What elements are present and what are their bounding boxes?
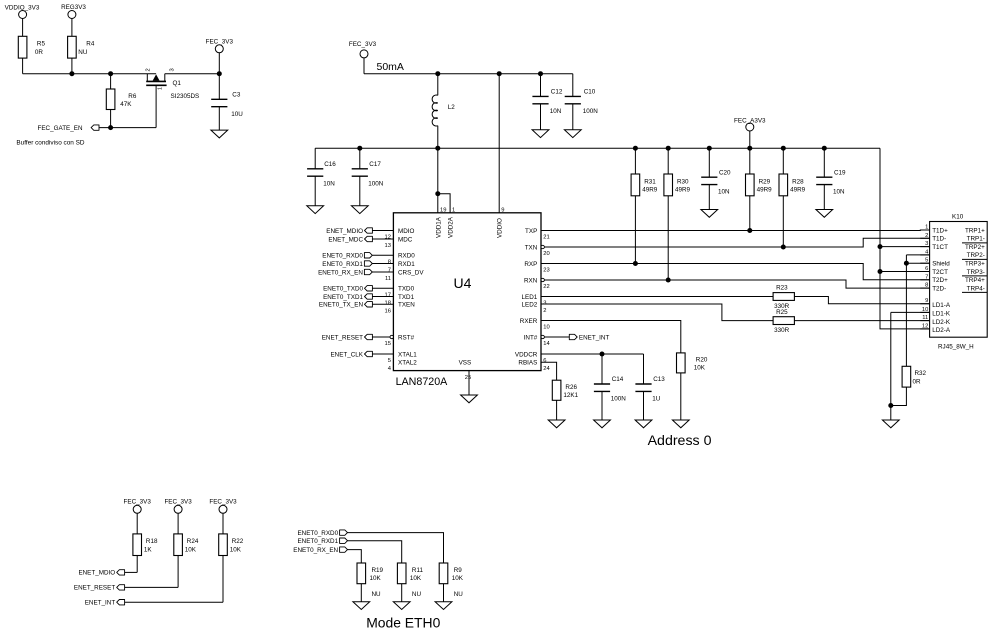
- svg-text:R5: R5: [37, 41, 46, 48]
- pin 11 LD2-K: [920, 315, 951, 326]
- svg-text:LED1: LED1: [522, 294, 538, 301]
- ground C20: [701, 210, 718, 218]
- svg-text:15: 15: [385, 341, 391, 347]
- pin 12 LD2-A: [920, 323, 951, 334]
- svg-text:FEC_3V3: FEC_3V3: [209, 499, 237, 506]
- ground C13: [635, 420, 652, 428]
- wire rail to C16: [314, 148, 316, 169]
- svg-text:13: 13: [385, 243, 391, 249]
- wire R24 to ENET_RESET: [177, 556, 179, 588]
- wire R26 to ground: [556, 400, 558, 420]
- svg-text:9: 9: [501, 208, 504, 214]
- ground C10: [564, 130, 581, 138]
- junction R4/rail: [69, 71, 74, 76]
- resistor R18: [133, 534, 158, 556]
- svg-text:VDDIO: VDDIO: [497, 218, 504, 238]
- resistor R6: [106, 89, 137, 110]
- svg-text:ENET0_RXD1: ENET0_RXD1: [322, 261, 363, 268]
- svg-text:20: 20: [543, 251, 549, 257]
- capacitor C12: [532, 89, 562, 115]
- svg-text:ENET0_RX_EN: ENET0_RX_EN: [318, 269, 363, 276]
- svg-text:TRP4-: TRP4-: [967, 285, 985, 292]
- ground VSS: [461, 395, 478, 403]
- wire R28 to TXN: [782, 196, 784, 247]
- wire Shield to R32: [905, 263, 907, 366]
- svg-text:LD2-A: LD2-A: [932, 327, 951, 334]
- svg-text:2: 2: [925, 233, 928, 239]
- wire R25 to LD2-K: [794, 320, 929, 322]
- net flag ENET_MDC: [328, 236, 372, 243]
- svg-text:T2D-: T2D-: [932, 285, 946, 292]
- svg-text:11: 11: [922, 315, 928, 321]
- resistor R23: [773, 285, 794, 310]
- svg-text:5: 5: [388, 358, 391, 364]
- wire R32 to ground node: [891, 387, 907, 405]
- svg-text:25: 25: [465, 375, 471, 381]
- net flag ENET_RESET: [74, 585, 125, 592]
- svg-text:Mode ETH0: Mode ETH0: [366, 615, 440, 631]
- svg-text:TXN: TXN: [525, 244, 538, 251]
- wire VDDCR to C13: [541, 353, 644, 355]
- svg-text:ENET0_TX_EN: ENET0_TX_EN: [319, 302, 364, 309]
- svg-text:T1D-: T1D-: [932, 236, 946, 243]
- svg-text:C3: C3: [232, 92, 241, 99]
- wire C13 to ground: [643, 391, 645, 420]
- junction VDDIO/top rail: [497, 71, 502, 76]
- ground R9: [435, 602, 452, 610]
- svg-text:8: 8: [925, 283, 928, 289]
- junction FEC_A3V3/rail: [747, 146, 752, 151]
- wire rail to R31: [634, 148, 636, 174]
- pin bubble TXN: [541, 245, 544, 248]
- svg-text:ENET_INT: ENET_INT: [579, 334, 610, 341]
- wire C3 to ground: [218, 107, 220, 130]
- svg-text:TRP3+: TRP3+: [965, 261, 985, 268]
- wire ENET_MDC to U4: [372, 238, 393, 240]
- svg-text:1K: 1K: [144, 547, 153, 554]
- svg-text:C16: C16: [324, 161, 336, 168]
- net flag ENET0_TX_EN: [319, 302, 372, 309]
- svg-text:7: 7: [925, 274, 928, 280]
- svg-text:10K: 10K: [370, 575, 382, 582]
- svg-text:0R: 0R: [35, 49, 44, 56]
- wire ENET0_TXD1 to U4: [372, 296, 393, 298]
- junction VDD1A/VDD2A: [435, 191, 440, 196]
- svg-text:Buffer condiviso con SD: Buffer condiviso con SD: [16, 140, 84, 147]
- pin bubble RST#: [390, 335, 393, 338]
- svg-text:ENET0_RXD1: ENET0_RXD1: [297, 538, 338, 545]
- svg-text:0R: 0R: [913, 379, 922, 386]
- wire R11 to ground: [401, 584, 403, 602]
- ground R26: [548, 420, 565, 428]
- op-amp U4 IC body LAN8720A: [393, 213, 541, 388]
- svg-text:MDIO: MDIO: [398, 228, 415, 235]
- svg-text:LD1-A: LD1-A: [932, 302, 951, 309]
- svg-text:Address 0: Address 0: [648, 433, 712, 449]
- svg-text:1: 1: [925, 225, 928, 231]
- svg-text:100N: 100N: [368, 180, 384, 187]
- junction R29/TXP: [747, 228, 752, 233]
- pin 5 Shield: [920, 258, 950, 268]
- svg-text:10K: 10K: [410, 575, 422, 582]
- svg-text:VDD2A: VDD2A: [448, 216, 455, 238]
- pin 8 T2D-: [920, 283, 946, 293]
- svg-text:10N: 10N: [833, 189, 845, 196]
- svg-text:10U: 10U: [231, 111, 243, 118]
- junction R6/gate wire: [108, 125, 113, 130]
- svg-text:8: 8: [388, 259, 391, 265]
- resistor R28: [779, 174, 806, 196]
- svg-text:TRP4+: TRP4+: [965, 277, 985, 284]
- wire to ground: [890, 406, 892, 421]
- svg-text:TRP1-: TRP1-: [967, 236, 985, 243]
- pin 9 LD1-A: [920, 298, 951, 309]
- svg-text:TXD0: TXD0: [398, 286, 415, 293]
- svg-text:VDDCR: VDDCR: [515, 351, 538, 358]
- ground R19: [353, 602, 370, 610]
- junction Shield: [904, 261, 909, 266]
- svg-text:RXD0: RXD0: [398, 253, 415, 260]
- svg-text:49R9: 49R9: [675, 187, 691, 194]
- svg-text:FEC_A3V3: FEC_A3V3: [734, 117, 766, 124]
- ground C14: [594, 420, 611, 428]
- svg-text:C17: C17: [369, 161, 381, 168]
- wire ENET0_RXD0 to U4: [372, 254, 393, 256]
- power VDDIO_3V3: [5, 4, 40, 36]
- wire R22 to ENET_INT: [222, 556, 224, 603]
- wire INT# to flag: [544, 336, 569, 338]
- capacitor C3: [211, 92, 243, 118]
- svg-text:LD2-K: LD2-K: [932, 319, 951, 326]
- svg-text:49R9: 49R9: [790, 187, 806, 194]
- svg-text:FEC_3V3: FEC_3V3: [124, 499, 152, 506]
- junction C12/top rail: [538, 71, 543, 76]
- svg-text:1: 1: [157, 87, 163, 90]
- wire VDDIO feed: [498, 74, 500, 213]
- net flag ENET0_RXD0: [297, 530, 347, 537]
- wire LD1-K stub: [891, 311, 930, 313]
- pin bubble INT#: [541, 335, 544, 338]
- net flag ENET0_TXD0: [323, 286, 372, 293]
- svg-text:10K: 10K: [230, 547, 242, 554]
- wire R31 to RXP: [634, 196, 636, 264]
- wire ENET0_RXD1 to U4: [372, 263, 393, 265]
- junction C17/rail: [357, 146, 362, 151]
- svg-text:R20: R20: [696, 356, 708, 363]
- svg-text:TXEN: TXEN: [398, 302, 415, 309]
- power FEC_3V3 (center): [349, 41, 377, 74]
- wire ENET_MDIO net: [125, 571, 138, 573]
- svg-text:ENET0_TXD1: ENET0_TXD1: [323, 294, 363, 301]
- svg-text:14: 14: [543, 341, 550, 347]
- svg-text:10N: 10N: [550, 108, 562, 115]
- wire ENET0_TX_EN to U4: [372, 303, 393, 305]
- junction C20/rail: [707, 146, 712, 151]
- capacitor C14: [594, 376, 626, 402]
- junction R30/RXN: [666, 278, 671, 283]
- power FEC_3V3 (R18): [124, 499, 152, 534]
- wire LD1-K to ground node: [890, 312, 892, 405]
- svg-text:5: 5: [925, 258, 928, 264]
- svg-text:RBIAS: RBIAS: [518, 360, 537, 367]
- wire R6 to gate net: [110, 110, 112, 128]
- svg-text:RJ45_8W_H: RJ45_8W_H: [938, 344, 974, 351]
- net flag ENET0_RX_EN: [318, 269, 372, 276]
- svg-text:ENET_RESET: ENET_RESET: [74, 585, 115, 592]
- wire C16 to ground: [314, 176, 316, 206]
- wire R5 to rail: [22, 58, 24, 74]
- svg-text:49R9: 49R9: [757, 187, 773, 194]
- svg-text:VSS: VSS: [459, 359, 472, 366]
- svg-text:21: 21: [543, 235, 549, 241]
- svg-text:NU: NU: [454, 591, 464, 598]
- pin 4: [920, 249, 929, 255]
- net flag FEC_GATE_EN: [37, 125, 99, 132]
- resistor R20: [677, 353, 708, 373]
- svg-text:FEC_3V3: FEC_3V3: [349, 41, 377, 48]
- svg-text:T2D+: T2D+: [932, 277, 948, 284]
- wire C20 to ground: [708, 185, 710, 210]
- wire rail to R6: [110, 74, 112, 89]
- pin bubble RXN: [541, 278, 544, 281]
- wire top rail to C12: [540, 74, 542, 97]
- wire rail to C19: [823, 148, 825, 177]
- svg-text:TXD1: TXD1: [398, 294, 415, 301]
- svg-text:12K1: 12K1: [563, 392, 578, 399]
- wire Q1 drain to FEC_3V3 node: [165, 73, 220, 75]
- wire ENET_RESET net: [125, 586, 179, 588]
- wire T2CT to FEC_A3V3 line: [880, 271, 930, 273]
- svg-text:FEC_3V3: FEC_3V3: [164, 499, 192, 506]
- wire top rail to C10: [572, 74, 574, 97]
- wire R9 to ground: [443, 584, 445, 602]
- svg-text:10: 10: [543, 325, 549, 331]
- capacitor C17: [352, 161, 384, 187]
- svg-text:10K: 10K: [694, 365, 706, 372]
- net flag ENET0_RXD0: [322, 253, 372, 260]
- net flag ENET_MDIO: [326, 228, 372, 235]
- junction R28/TXN: [781, 245, 786, 250]
- svg-text:R30: R30: [677, 178, 689, 185]
- wire LED1 to R23: [541, 296, 773, 298]
- ground C16: [307, 206, 324, 214]
- junction C14: [600, 352, 605, 357]
- wire LED2 to R25: [541, 304, 773, 321]
- ground R20: [672, 420, 689, 428]
- svg-text:R32: R32: [915, 370, 927, 377]
- svg-text:C20: C20: [719, 169, 731, 176]
- wire rail to C20: [708, 148, 710, 177]
- power REG3V3: [61, 4, 86, 36]
- wire rail to C17: [359, 148, 361, 169]
- svg-text:R29: R29: [759, 178, 771, 185]
- pin 10 LD1-K: [920, 307, 951, 318]
- power FEC_3V3 (top left): [206, 39, 234, 74]
- svg-text:100N: 100N: [583, 108, 599, 115]
- separator line 4: [962, 291, 987, 293]
- wire ENET_CLK to U4: [372, 353, 393, 355]
- svg-text:23: 23: [543, 268, 549, 274]
- svg-text:R25: R25: [776, 309, 788, 316]
- junction R31/rail: [633, 146, 638, 151]
- svg-text:R22: R22: [232, 538, 244, 545]
- wire ENET0_RX_EN to U4: [372, 271, 393, 273]
- net flag ENET0_TXD1: [323, 294, 372, 301]
- svg-text:RST#: RST#: [398, 334, 415, 341]
- svg-text:Shield: Shield: [932, 261, 950, 268]
- wire R4 to rail: [71, 58, 73, 74]
- svg-text:L2: L2: [448, 104, 456, 111]
- wire VDD2A jog: [438, 194, 450, 213]
- svg-text:MDC: MDC: [398, 236, 413, 243]
- svg-text:6: 6: [925, 266, 928, 272]
- resistor R9: [439, 563, 464, 584]
- svg-text:12: 12: [385, 235, 391, 241]
- svg-text:FEC_3V3: FEC_3V3: [206, 39, 234, 46]
- svg-text:RXP: RXP: [524, 261, 537, 268]
- junction T1CT: [878, 244, 883, 249]
- resistor R30: [664, 174, 691, 196]
- junction L2-VDD/rail: [435, 146, 440, 151]
- power FEC_A3V3: [734, 117, 766, 148]
- svg-text:12: 12: [922, 323, 928, 329]
- svg-text:R18: R18: [146, 538, 158, 545]
- resistor R5: [18, 36, 45, 58]
- wire ENET0_RX_EN to pulldown: [348, 550, 362, 563]
- net flag ENET_CLK: [330, 351, 372, 358]
- power FEC_3V3 (R24): [164, 499, 192, 534]
- svg-text:T2CT: T2CT: [932, 269, 948, 276]
- svg-text:R23: R23: [776, 285, 788, 292]
- svg-text:R19: R19: [372, 567, 384, 574]
- svg-text:LD1-K: LD1-K: [932, 311, 951, 318]
- svg-text:NU: NU: [372, 591, 382, 598]
- svg-text:T1CT: T1CT: [932, 244, 948, 251]
- svg-text:10: 10: [922, 307, 928, 313]
- wire rail to R29: [749, 148, 751, 174]
- svg-text:TRP2+: TRP2+: [965, 244, 985, 251]
- svg-text:INT#: INT#: [524, 334, 538, 341]
- svg-text:R31: R31: [644, 178, 656, 185]
- svg-text:FEC_GATE_EN: FEC_GATE_EN: [37, 125, 82, 132]
- wire C17 to ground: [359, 176, 361, 206]
- svg-text:ENET_RESET: ENET_RESET: [322, 334, 363, 341]
- svg-text:18: 18: [385, 301, 391, 307]
- wire C19 to ground: [823, 185, 825, 210]
- wire rail to R30: [667, 148, 669, 174]
- wire ENET0_RXD0 to pulldown: [348, 533, 444, 563]
- capacitor C16: [307, 161, 336, 187]
- wire FEC_A3V3 rail: [315, 147, 880, 149]
- wire RXP to T2D+: [541, 264, 930, 280]
- capacitor C20: [701, 169, 731, 195]
- net flag ENET_INT: [569, 334, 609, 341]
- svg-text:VDD1A: VDD1A: [435, 216, 442, 238]
- svg-text:ENET0_RX_EN: ENET0_RX_EN: [293, 547, 338, 554]
- wire node to C3: [218, 74, 220, 100]
- wire C14 to ground: [601, 391, 603, 420]
- svg-text:TRP2-: TRP2-: [967, 252, 985, 259]
- svg-text:RXD1: RXD1: [398, 261, 415, 268]
- wire R29 to TXP: [749, 196, 751, 231]
- svg-text:C12: C12: [551, 89, 563, 96]
- svg-text:2: 2: [543, 308, 546, 314]
- wire C12 to ground: [540, 104, 542, 130]
- svg-text:ENET_MDIO: ENET_MDIO: [326, 228, 363, 235]
- ground R11: [393, 602, 410, 610]
- net flag ENET_RESET: [322, 334, 373, 341]
- svg-text:ENET_CLK: ENET_CLK: [330, 351, 363, 358]
- wire TXN to T1D-: [544, 238, 929, 247]
- wire pin4 to shield: [905, 255, 907, 263]
- resistor R29: [746, 174, 773, 196]
- svg-text:T1D+: T1D+: [932, 227, 948, 234]
- junction R31/RXP: [633, 261, 638, 266]
- svg-text:C14: C14: [612, 376, 624, 383]
- wire ENET0_RXD1 to pulldown: [348, 541, 402, 563]
- svg-text:10K: 10K: [185, 547, 197, 554]
- svg-text:Q1: Q1: [173, 80, 182, 87]
- wire Shield stub: [906, 262, 929, 264]
- wire R19 to ground: [360, 584, 362, 602]
- svg-text:24: 24: [543, 366, 550, 372]
- svg-text:NU: NU: [412, 591, 422, 598]
- ground C12: [532, 130, 549, 138]
- svg-text:9: 9: [925, 298, 928, 304]
- junction R30/rail: [666, 146, 671, 151]
- svg-text:ENET_MDC: ENET_MDC: [328, 236, 363, 243]
- svg-text:ENET0_TXD0: ENET0_TXD0: [323, 286, 363, 293]
- svg-text:7: 7: [388, 268, 391, 274]
- resistor R26: [552, 380, 578, 400]
- svg-text:U4: U4: [454, 275, 472, 291]
- svg-text:VDDIO_3V3: VDDIO_3V3: [5, 4, 40, 11]
- wire pin4 stub: [906, 254, 929, 256]
- svg-text:XTAL1: XTAL1: [398, 351, 417, 358]
- svg-text:16: 16: [385, 308, 391, 314]
- wire R30 to RXN: [667, 196, 669, 280]
- ground R32: [882, 420, 899, 428]
- svg-text:XTAL2: XTAL2: [398, 360, 417, 367]
- svg-text:10N: 10N: [323, 180, 335, 187]
- svg-text:R4: R4: [86, 41, 95, 48]
- resistor R19: [357, 563, 384, 584]
- svg-text:NU: NU: [78, 49, 88, 56]
- svg-text:19: 19: [440, 208, 446, 214]
- wire ENET_INT net: [125, 601, 223, 603]
- capacitor C19: [816, 169, 846, 195]
- resistor R25: [773, 309, 794, 334]
- junction L2/top rail: [435, 71, 440, 76]
- svg-text:R28: R28: [792, 178, 804, 185]
- junction C19/rail: [822, 146, 827, 151]
- net flag ENET0_RX_EN: [293, 547, 347, 554]
- pin 2 T1D-: [920, 233, 946, 243]
- wire 3V3 rail to Q1 source/arrow: [23, 73, 157, 75]
- svg-text:C10: C10: [584, 89, 596, 96]
- wire R20 to ground: [680, 373, 682, 420]
- junction R28/rail: [781, 146, 786, 151]
- svg-text:RXN: RXN: [524, 277, 538, 284]
- svg-text:C19: C19: [834, 169, 846, 176]
- svg-text:R24: R24: [187, 538, 199, 545]
- net flag ENET0_RXD1: [297, 538, 347, 545]
- svg-text:K10: K10: [952, 214, 964, 221]
- power FEC_3V3 (R22): [209, 499, 237, 534]
- svg-text:47K: 47K: [120, 101, 132, 108]
- net flag ENET_INT: [85, 600, 125, 607]
- wire TXP to T1D+: [541, 229, 930, 232]
